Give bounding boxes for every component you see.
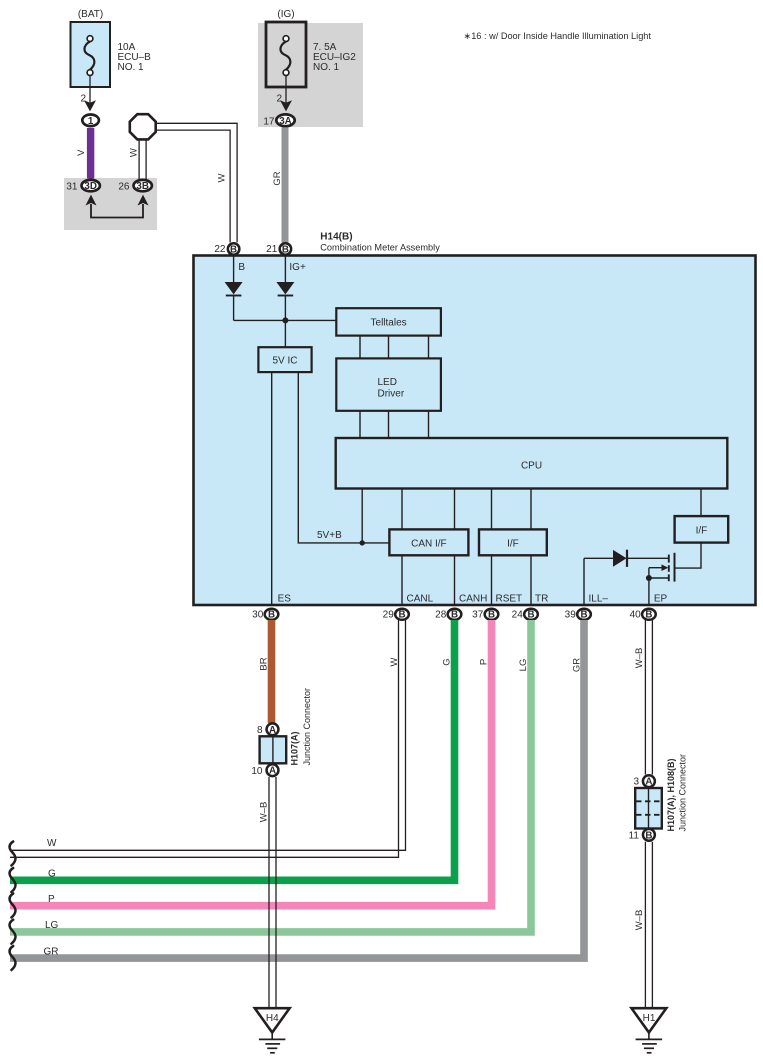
svg-text:Junction Connector: Junction Connector [678, 754, 688, 832]
svg-text:GR: GR [44, 947, 59, 958]
svg-text:31: 31 [66, 181, 78, 192]
svg-text:B: B [451, 610, 458, 621]
svg-text:P: P [48, 894, 55, 905]
svg-text:A: A [269, 725, 276, 736]
svg-text:H1: H1 [643, 1013, 656, 1024]
svg-text:W–B: W–B [259, 802, 270, 823]
svg-text:(IG): (IG) [277, 9, 294, 20]
svg-text:B: B [645, 831, 652, 842]
svg-text:RSET: RSET [496, 594, 523, 605]
svg-text:W: W [129, 148, 140, 157]
svg-text:I/F: I/F [696, 526, 708, 537]
svg-text:H4: H4 [266, 1013, 279, 1024]
svg-text:Telltales: Telltales [371, 318, 407, 329]
svg-text:W–B: W–B [634, 648, 645, 669]
svg-text:Combination Meter Assembly: Combination Meter Assembly [320, 243, 440, 253]
svg-text:V: V [76, 149, 87, 156]
svg-text:3D: 3D [84, 181, 97, 192]
svg-text:CANH: CANH [459, 594, 487, 605]
svg-text:5V IC: 5V IC [272, 355, 297, 366]
svg-text:10: 10 [251, 766, 263, 777]
svg-text:26: 26 [118, 181, 130, 192]
svg-text:BR: BR [259, 657, 270, 670]
svg-text:G: G [442, 658, 453, 665]
svg-text:W: W [47, 838, 57, 849]
svg-text:B: B [645, 610, 652, 621]
svg-text:B: B [230, 244, 237, 255]
svg-text:(BAT): (BAT) [78, 9, 103, 20]
svg-text:EP: EP [654, 594, 668, 605]
svg-text:B: B [238, 262, 245, 273]
svg-text:H107(A), H108(B): H107(A), H108(B) [666, 758, 676, 831]
svg-text:B: B [282, 244, 289, 255]
svg-text:LG: LG [45, 920, 59, 931]
svg-text:NO. 1: NO. 1 [118, 62, 145, 73]
svg-text:40: 40 [630, 610, 642, 621]
svg-text:ES: ES [278, 594, 292, 605]
svg-text:P: P [479, 659, 490, 665]
svg-text:TR: TR [535, 594, 548, 605]
svg-text:3B: 3B [136, 181, 149, 192]
svg-text:GR: GR [572, 658, 583, 672]
svg-text:H14(B): H14(B) [320, 232, 352, 243]
svg-text:2: 2 [80, 94, 86, 105]
svg-text:Driver: Driver [378, 388, 405, 399]
svg-text:∗16 : w/ Door Inside Handle Il: ∗16 : w/ Door Inside Handle Illumination… [464, 31, 652, 41]
svg-text:37: 37 [472, 610, 484, 621]
svg-text:ILL–: ILL– [589, 594, 609, 605]
svg-text:CANL: CANL [407, 594, 434, 605]
svg-text:CAN I/F: CAN I/F [411, 539, 447, 550]
svg-text:8: 8 [257, 725, 263, 736]
svg-text:24: 24 [512, 610, 524, 621]
svg-text:5V+B: 5V+B [317, 530, 342, 541]
svg-text:B: B [268, 610, 275, 621]
svg-text:A: A [645, 777, 652, 788]
svg-text:3A: 3A [279, 116, 292, 127]
svg-text:1: 1 [88, 116, 94, 127]
svg-text:W: W [217, 173, 228, 182]
svg-text:H107(A): H107(A) [289, 731, 299, 765]
svg-text:30: 30 [252, 610, 264, 621]
svg-text:39: 39 [565, 610, 577, 621]
svg-text:22: 22 [214, 244, 226, 255]
svg-text:B: B [488, 610, 495, 621]
svg-text:IG+: IG+ [289, 262, 306, 273]
svg-text:GR: GR [272, 171, 283, 185]
svg-text:LG: LG [518, 659, 529, 672]
svg-text:28: 28 [435, 610, 447, 621]
svg-text:Junction Connector: Junction Connector [302, 688, 312, 766]
svg-text:2: 2 [276, 94, 282, 105]
svg-text:W: W [389, 657, 400, 666]
svg-text:W–B: W–B [634, 910, 645, 931]
svg-text:G: G [48, 869, 56, 880]
svg-text:29: 29 [383, 610, 395, 621]
svg-text:CPU: CPU [521, 460, 542, 471]
svg-text:NO. 1: NO. 1 [313, 62, 340, 73]
svg-text:A: A [269, 766, 276, 777]
svg-text:B: B [398, 610, 405, 621]
svg-text:17: 17 [263, 117, 275, 128]
svg-text:3: 3 [633, 777, 639, 788]
svg-text:21: 21 [266, 244, 278, 255]
svg-text:B: B [527, 610, 534, 621]
svg-text:LED: LED [378, 377, 397, 388]
svg-text:11: 11 [629, 831, 640, 842]
svg-text:I/F: I/F [507, 539, 519, 550]
svg-text:B: B [580, 610, 587, 621]
